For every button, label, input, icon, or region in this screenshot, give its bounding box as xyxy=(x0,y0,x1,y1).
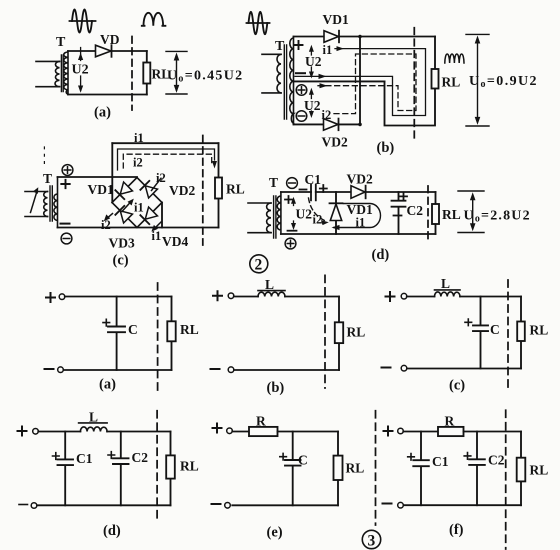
svg-text:U2: U2 xyxy=(296,207,313,222)
input terminal bottom (fe) xyxy=(225,503,231,509)
wire: bottom rail (fe) xyxy=(232,504,338,506)
resistor R (ff) xyxy=(438,427,464,436)
wire: top rail right (fd) xyxy=(107,431,170,433)
transformer secondary winding xyxy=(64,51,68,95)
svg-text:i1: i1 xyxy=(134,201,144,215)
svg-text:C1: C1 xyxy=(305,172,322,187)
transformer primary winding (d) xyxy=(248,203,271,233)
svg-text:Uo=0.9U2: Uo=0.9U2 xyxy=(469,74,538,90)
input terminal top (fb) xyxy=(228,293,234,299)
minus terminal sign (fb) xyxy=(211,368,220,370)
wire: bottom rail (a) xyxy=(68,94,147,96)
svg-text:(c): (c) xyxy=(449,378,465,394)
svg-text:T: T xyxy=(269,175,278,190)
diode VD2 xyxy=(322,119,348,150)
wire: bottom rail (fa) xyxy=(63,369,171,371)
wire: bottom rail (b) secondary to VD2 to node K xyxy=(294,123,361,125)
circled plus terminal (d) xyxy=(285,238,296,249)
capacitor C1 (series) xyxy=(311,185,316,201)
C1 polarity plus (ff) xyxy=(408,454,415,461)
transformer primary winding (b) xyxy=(262,54,281,93)
svg-text:T: T xyxy=(56,35,66,50)
wire: top rail (fa) xyxy=(65,296,172,298)
C2 minus sign xyxy=(394,215,402,217)
svg-text:VD2: VD2 xyxy=(347,172,373,187)
wire: RL branch (fe) xyxy=(337,432,339,506)
wire: top rail left (fb) xyxy=(234,296,258,298)
plus terminal sign (fa) xyxy=(46,293,55,302)
wire: RL branch (ff) xyxy=(520,432,522,506)
plus terminal sign (fe) xyxy=(213,424,222,433)
svg-text:L: L xyxy=(89,410,98,425)
wire: bottom rail (fc) xyxy=(407,368,521,370)
plus terminal sign (fd) xyxy=(18,427,27,436)
wire: top rail right (fb) xyxy=(285,296,339,298)
capacitor C2 (fd) xyxy=(113,432,129,506)
circled plus terminal (c) xyxy=(62,165,73,176)
plus sign top winding xyxy=(295,41,303,49)
svg-text:C2: C2 xyxy=(488,453,505,468)
C polarity plus (fa) xyxy=(103,319,110,326)
svg-text:C: C xyxy=(298,453,308,468)
i1 arrowhead xyxy=(337,46,345,51)
dashed load-boundary line (a) xyxy=(131,37,133,111)
svg-text:C: C xyxy=(128,322,138,337)
svg-text:(d): (d) xyxy=(372,247,390,263)
minus sign (c) xyxy=(61,223,70,225)
circled minus terminal (c) xyxy=(61,233,72,244)
circled minus terminal (d) xyxy=(287,178,298,189)
i1 current path (c) xyxy=(118,149,215,170)
svg-text:(b): (b) xyxy=(377,140,395,156)
dashed load-boundary line (fa) xyxy=(157,283,159,390)
svg-text:VD4: VD4 xyxy=(162,234,188,249)
svg-text:RL: RL xyxy=(180,459,199,474)
U2 arrow upper (b) xyxy=(309,45,314,79)
i2 dashed current path (b) xyxy=(318,54,416,114)
i1 arrowhead down (c) xyxy=(212,161,217,169)
svg-text:i2: i2 xyxy=(322,108,332,122)
wire: right branch (a) xyxy=(146,51,148,95)
svg-text:R: R xyxy=(256,414,266,429)
resistor R (fe) xyxy=(249,427,278,436)
svg-text:RL: RL xyxy=(530,463,549,478)
resistor RL (a) xyxy=(143,63,150,84)
capacitor C1 (ff) xyxy=(413,432,429,506)
capacitor C1 (fd) xyxy=(58,432,74,506)
diode VD1 (bridge) xyxy=(115,182,132,199)
diode VD1 xyxy=(323,12,349,42)
input terminal bottom (ff) xyxy=(398,502,404,508)
wire: centre-tap return xyxy=(294,80,385,82)
dashed load-boundary line (b) xyxy=(413,28,415,140)
U2 arrow (d) xyxy=(291,197,296,230)
wire: top rail right (ff) xyxy=(464,431,522,433)
wire: bottom rail (fd) xyxy=(37,504,171,506)
resistor RL (ff) xyxy=(517,458,526,482)
input terminal top (fa) xyxy=(59,294,65,300)
circled number 2 xyxy=(250,255,268,274)
wire: bottom rail (ff) xyxy=(403,504,521,506)
transformer core (b) xyxy=(284,45,286,119)
C2 plus sign xyxy=(400,193,407,200)
capacitor C (fe) xyxy=(285,432,301,506)
plus terminal sign (fc) xyxy=(386,292,395,301)
input terminal bottom (fd) xyxy=(31,503,37,509)
svg-text:(d): (d) xyxy=(103,523,121,539)
capacitor C2 (d) xyxy=(392,192,406,234)
dashed load-boundary line (ff) xyxy=(505,410,507,549)
plus sign (c) xyxy=(61,180,69,188)
transformer primary winding (c) xyxy=(25,192,48,217)
svg-text:(b): (b) xyxy=(267,380,285,396)
C polarity plus (fc) xyxy=(465,319,472,326)
svg-text:RL: RL xyxy=(347,325,366,340)
svg-text:VD2: VD2 xyxy=(169,183,195,198)
input terminal top (fd) xyxy=(33,429,39,435)
wire: top rail (a) xyxy=(68,50,147,52)
svg-text:VD1: VD1 xyxy=(88,182,114,197)
wire: top rail left (fd) xyxy=(38,431,80,433)
wire: top rail right (fe) xyxy=(278,431,339,433)
U2 voltage arrow xyxy=(78,48,83,93)
circled plus terminal xyxy=(296,85,307,96)
svg-text:RL: RL xyxy=(346,461,365,476)
wire: DC- drop from right vertex (c) xyxy=(161,203,163,228)
wire: top output rail (c) xyxy=(112,142,218,144)
bridge diamond wires xyxy=(112,178,162,228)
svg-text:R: R xyxy=(445,414,455,429)
dashed load-boundary line (d) xyxy=(427,186,429,242)
diode VD2 (d) xyxy=(347,172,373,199)
C1 plus sign xyxy=(320,185,327,192)
wire: RL branch (fa) xyxy=(171,297,173,371)
svg-text:i2: i2 xyxy=(313,213,323,227)
svg-text:C2: C2 xyxy=(407,203,424,218)
resistor RL (fc) xyxy=(517,322,525,342)
wire: top rail right segment (d) xyxy=(366,191,436,193)
transformer primary winding xyxy=(36,61,60,86)
resistor RL (fa) xyxy=(167,321,175,341)
svg-text:i2: i2 xyxy=(101,218,111,232)
wire: RL branch (fb) xyxy=(338,297,340,371)
i1 current path (b) xyxy=(295,49,426,116)
svg-text:RL: RL xyxy=(442,75,461,90)
resistor RL (d) xyxy=(432,204,439,224)
svg-text:RL: RL xyxy=(442,207,461,222)
minus terminal sign (fe) xyxy=(212,503,221,505)
inductor L (fc) xyxy=(435,290,461,297)
circled number 3 xyxy=(362,530,380,549)
svg-text:2: 2 xyxy=(255,257,263,274)
junction dots xyxy=(358,35,362,39)
svg-text:RL: RL xyxy=(226,182,245,197)
i2 dashed current path (c) xyxy=(123,154,211,168)
wire: bottom rail (d) xyxy=(281,233,436,235)
source arrow through primary (c) xyxy=(31,187,39,212)
svg-text:U2: U2 xyxy=(304,98,321,113)
svg-text:L: L xyxy=(265,277,274,292)
svg-text:T: T xyxy=(43,171,52,186)
svg-text:U2: U2 xyxy=(305,54,322,69)
inductor L (fd) xyxy=(79,423,108,432)
svg-text:C2: C2 xyxy=(132,450,149,465)
i1 loop around VD1 xyxy=(332,204,381,231)
i1 stroke near VD4 xyxy=(151,222,161,232)
plus terminal sign (fb) xyxy=(213,291,222,300)
resistor RL (fd) xyxy=(166,455,175,478)
i2 dashed arc (d) xyxy=(309,198,329,225)
U2 arrow lower (b) xyxy=(309,88,314,118)
minus sign above centre tap xyxy=(296,72,305,74)
current arrow on centre-tap wire xyxy=(319,74,327,79)
wire: bottom rail (fb) xyxy=(234,369,339,371)
svg-text:i2: i2 xyxy=(133,156,143,170)
C1 polarity plus (fd) xyxy=(53,453,60,460)
i2 arrowhead xyxy=(320,83,328,88)
minus terminal sign (fd) xyxy=(19,504,28,506)
wire: top rail left (fe) xyxy=(232,431,249,433)
wire: RL branch (fd) xyxy=(170,432,172,506)
svg-text:(e): (e) xyxy=(267,525,283,541)
input terminal bottom (fb) xyxy=(228,367,234,373)
svg-text:(f): (f) xyxy=(449,522,464,538)
svg-text:VD2: VD2 xyxy=(322,135,348,150)
svg-text:3: 3 xyxy=(368,533,376,550)
transformer secondary winding (c) xyxy=(54,177,58,228)
U2 plus sign (d) xyxy=(285,196,292,203)
resistor RL (c) xyxy=(215,178,222,199)
svg-text:RL: RL xyxy=(180,322,199,337)
diode VD1 (vertical, d) xyxy=(330,192,343,234)
C2 polarity plus (fd) xyxy=(108,452,115,459)
svg-text:T: T xyxy=(275,39,285,54)
diode VD2 (bridge) xyxy=(140,181,157,198)
half-wave output waveform symbol xyxy=(142,13,166,26)
dashed load-boundary line (fb) xyxy=(324,275,326,388)
transformer core (d) xyxy=(274,196,276,238)
minus terminal sign (ff) xyxy=(383,503,392,505)
minus terminal sign (fc) xyxy=(382,367,391,369)
resistor RL (fe) xyxy=(334,456,343,480)
C1 minus sign xyxy=(300,189,307,191)
capacitor C (fc) xyxy=(473,297,488,369)
svg-text:RL: RL xyxy=(530,323,549,338)
dashed load-boundary line (fc) xyxy=(507,280,509,387)
svg-text:C: C xyxy=(490,322,500,337)
transformer core xyxy=(61,55,63,92)
svg-text:C1: C1 xyxy=(76,451,93,466)
C polarity plus (fe) xyxy=(280,453,287,460)
svg-text:i1: i1 xyxy=(152,229,162,243)
wire: RL branch (d) xyxy=(435,192,437,234)
svg-text:(c): (c) xyxy=(113,253,129,269)
wire: top rail left segment (d) xyxy=(281,191,311,193)
diode VD3 (bridge) xyxy=(115,206,132,223)
dotted fold mark above transformer (c) xyxy=(43,147,45,168)
svg-text:C1: C1 xyxy=(432,454,449,469)
svg-text:i1: i1 xyxy=(134,131,144,145)
C2 polarity plus (ff) xyxy=(464,453,471,460)
sine-wave source symbol (b) xyxy=(247,12,270,35)
wire: top rail (b) xyxy=(294,36,436,38)
svg-text:L: L xyxy=(441,276,450,291)
wire: secondary top to bridge (c) xyxy=(58,176,138,178)
sine-wave source symbol xyxy=(70,9,96,32)
i2 stroke near VD2 xyxy=(152,178,162,190)
resistor RL (fb) xyxy=(335,322,343,343)
wire: RL branch (fc) xyxy=(520,297,522,369)
U2 minus sign (d) xyxy=(288,230,297,232)
wire: top rail left (fc) xyxy=(407,296,435,298)
svg-text:Uo=2.8U2: Uo=2.8U2 xyxy=(464,209,531,225)
Uo measurement arrow (d) xyxy=(458,191,484,233)
transformer secondary winding (d) xyxy=(277,192,281,234)
wire: DC+ riser from left vertex (c) xyxy=(111,143,113,202)
inductor L (fb) xyxy=(258,291,285,297)
wire: cathode junction vertical (node K) xyxy=(359,37,361,125)
diode VD xyxy=(96,32,120,57)
transformer secondary winding (b) xyxy=(290,37,294,125)
minus terminal sign (fa) xyxy=(45,368,54,370)
Uo measurement arrow (b) xyxy=(466,34,489,126)
svg-text:VD: VD xyxy=(100,32,120,47)
full-wave output waveform symbol xyxy=(445,54,464,63)
input terminal top (ff) xyxy=(398,428,404,434)
svg-text:i2: i2 xyxy=(156,171,166,185)
input terminal top (fc) xyxy=(401,293,407,299)
input terminal bottom (fc) xyxy=(401,365,407,371)
svg-text:i1: i1 xyxy=(323,43,333,57)
plus terminal sign (ff) xyxy=(384,427,393,436)
svg-text:VD3: VD3 xyxy=(109,236,135,251)
wire: RL branch and return (b) xyxy=(385,37,436,126)
svg-text:Uo=0.45U2: Uo=0.45U2 xyxy=(167,69,243,85)
svg-text:U2: U2 xyxy=(72,63,89,78)
dashed load-boundary line (fe) xyxy=(375,411,377,525)
diode VD4 (bridge) xyxy=(140,207,157,224)
Uo measurement arrow (a) xyxy=(166,51,187,94)
wire: bottom rail (c) xyxy=(58,227,219,229)
capacitor C2 (ff) xyxy=(469,432,485,506)
capacitor C (fa) xyxy=(108,297,125,371)
wire: top rail right (fc) xyxy=(460,296,521,298)
resistor RL (b) xyxy=(432,69,439,89)
wire: RL branch (c) xyxy=(218,143,220,227)
i2 stroke near VD3 xyxy=(104,214,113,222)
transformer core (c) xyxy=(50,186,52,221)
dashed load-boundary line (fd) xyxy=(156,411,158,524)
input terminal bottom (fa) xyxy=(58,367,64,373)
dashed load-boundary line (c) xyxy=(202,136,204,246)
circled minus terminal xyxy=(296,111,307,122)
svg-text:(a): (a) xyxy=(94,105,111,121)
svg-text:(a): (a) xyxy=(99,377,116,393)
svg-text:VD1: VD1 xyxy=(323,12,349,27)
wire: top rail mid segment (d) xyxy=(316,191,351,193)
input terminal top (fe) xyxy=(227,428,233,434)
wire: top rail left (ff) xyxy=(403,431,438,433)
i1 arrow inside bridge xyxy=(122,199,134,212)
